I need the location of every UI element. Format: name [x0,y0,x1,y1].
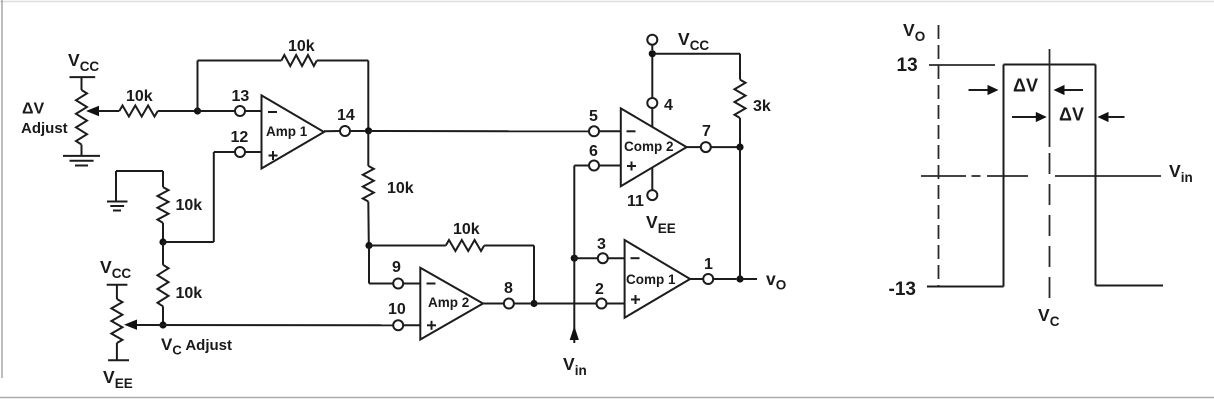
svg-text:Comp 2: Comp 2 [624,139,674,154]
wire feedback top rail left [198,60,282,62]
pin 13 [232,88,262,116]
op-amp U1 Amp 1 [262,95,325,168]
arrow left (upper ΔV) [1054,85,1084,95]
wire node A to pin 13 [198,110,236,112]
node H junction (vO) [736,275,743,282]
transfer curve pulse [927,65,1163,287]
pin 9 [392,259,420,289]
svg-text:ΔV: ΔV [1013,76,1038,96]
svg-text:11: 11 [627,193,644,210]
resistor R7 3k [735,80,771,148]
node J junction (Comp2 out / 3k) [736,144,743,151]
svg-text:10k: 10k [176,197,203,214]
node D junction [159,321,166,328]
pin 12 [214,129,262,157]
arrow left (lower ΔV) [1098,112,1125,122]
tick +13 [897,55,996,76]
svg-text:5: 5 [589,108,598,125]
op-amp U2 Amp 2 [420,268,483,340]
ground (mid-left) [107,171,163,211]
Vin axis (dash-dot) [921,161,1193,185]
svg-text:ΔV: ΔV [22,101,45,118]
comparator U4 Comp 2 [621,108,687,186]
svg-text:12: 12 [231,129,249,146]
wire bottom row to pin 10 [137,324,393,326]
svg-text:10k: 10k [288,38,315,55]
resistor R3 10k [363,166,414,202]
svg-text:7: 7 [702,123,711,140]
resistor R4 10k [158,171,203,242]
wire output column [739,147,741,279]
svg-text:3: 3 [597,236,606,253]
wire node F to pin 2 [534,303,597,305]
wire node E down to pin 9 [368,246,370,284]
resistor R5 10k [158,242,203,325]
wire R1 to node A [158,110,198,112]
wire node E feedback row [369,245,446,247]
arrow right (upper ΔV) [969,85,999,95]
power VCC (VC pot) [100,257,131,299]
node C junction [159,238,166,245]
Vin input arrow [563,326,587,378]
arrow right (lower ΔV) [1012,112,1047,122]
wire node C to pin12 vertical [163,241,214,243]
frame left edge [1,0,3,378]
resistor R6 10k (Amp2 feedback) [446,221,484,251]
pin 11 [627,168,657,211]
ground (below P1) [63,156,100,166]
svg-text:10: 10 [388,301,406,318]
svg-text:10k: 10k [453,221,480,238]
wire node B to pin 5 [369,130,590,132]
y axis (dashed) [938,25,940,287]
potentiometer P1 ΔV Adjust [76,90,99,156]
node I junction (VCC rail) [649,50,656,57]
svg-text:3k: 3k [753,98,771,115]
pin 3 [597,236,625,263]
svg-text:10k: 10k [387,180,414,197]
wire feedback down to node F [533,246,535,304]
resistor R2 10k feedback [281,38,316,66]
svg-text:2: 2 [595,281,604,298]
node G junction (Vin / pin6 / pin3) [571,255,578,262]
svg-text:-13: -13 [889,279,916,300]
svg-text:Amp 1: Amp 1 [266,124,308,139]
frame bottom edge [0,397,1214,399]
wire feedback left vertical [197,61,199,112]
svg-text:10k: 10k [126,88,153,105]
svg-text:10k: 10k [176,285,203,302]
svg-text:Amp 2: Amp 2 [428,295,469,310]
wire VCC rail to 3k [652,53,740,55]
svg-text:Adjust: Adjust [21,120,68,137]
pin 2 [595,281,625,309]
svg-text:ΔV: ΔV [1059,105,1084,125]
pin 7 [687,123,740,152]
potentiometer P2 VC Adjust [111,299,137,360]
wire feedback right vertical [367,61,369,131]
VC line (dash-dot vertical) [1038,49,1060,329]
comparator U3 Comp 1 [625,240,691,318]
node F junction (Amp2 output) [530,300,537,307]
tick -13 [889,279,916,300]
wire R3 to node E [367,202,370,246]
svg-text:8: 8 [504,280,513,297]
svg-text:13: 13 [232,88,250,105]
svg-text:Comp 1: Comp 1 [626,272,676,287]
wire pin12 vertical to node C [213,152,215,242]
terminal VCC [647,29,709,53]
wire wiper to R1 [98,110,119,112]
wire pin6 vertical to node G [573,166,575,259]
pin 1 [690,256,736,284]
power VCC (ΔV pot) [68,50,99,90]
pin 6 [574,143,621,171]
svg-text:9: 9 [392,259,401,276]
pin 10 [388,301,420,330]
svg-text:14: 14 [337,107,355,124]
power VEE (VC pot) [103,360,133,391]
svg-text:4: 4 [664,97,673,114]
pin 14 [324,107,365,136]
wire node B down to R3 [367,131,369,166]
pin 4 [647,54,673,127]
resistor R1 10k [119,88,158,117]
svg-text:6: 6 [589,143,598,160]
svg-text:13: 13 [897,55,918,76]
pin 5 [589,108,621,136]
wire Vin vertical [573,258,575,343]
node A junction [194,107,201,114]
node B junction (Amp1 output) [365,127,372,134]
wire feedback top rail right [317,60,369,62]
wire node H to vO [740,278,757,280]
label ΔV Adjust [21,101,68,138]
pin 8 [483,280,530,309]
svg-text:1: 1 [704,256,713,273]
wire R6 to output column [484,245,534,247]
wire node G to pin 3 [574,257,598,259]
frame top edge [0,1,1214,3]
node E junction [365,242,372,249]
